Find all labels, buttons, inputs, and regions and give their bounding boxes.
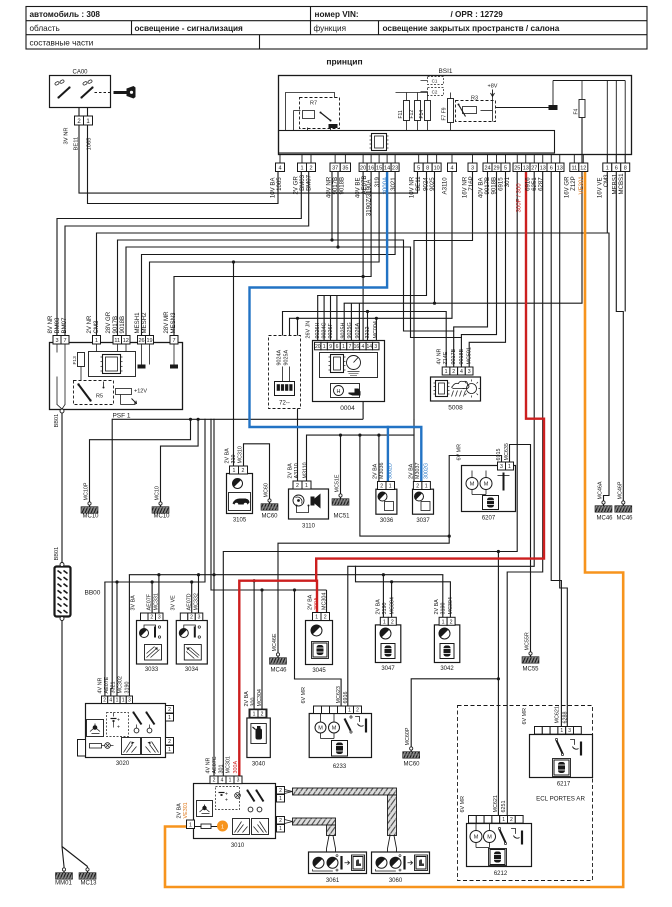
svg-text:+: + bbox=[117, 725, 120, 731]
svg-text:16: 16 bbox=[368, 166, 374, 172]
door module 6212 bbox=[467, 824, 532, 878]
svg-text:MC301: MC301 bbox=[226, 756, 232, 773]
svg-text:3060: 3060 bbox=[389, 878, 403, 884]
svg-text:6V MR: 6V MR bbox=[457, 444, 463, 461]
svg-text:35: 35 bbox=[342, 166, 348, 172]
svg-text:4: 4 bbox=[460, 369, 463, 375]
svg-text:MC55R: MC55R bbox=[525, 632, 531, 650]
svg-text:2: 2 bbox=[242, 468, 245, 474]
svg-text:5008: 5008 bbox=[448, 405, 463, 412]
svg-text:1: 1 bbox=[348, 708, 351, 714]
3037 connector pins bbox=[413, 482, 430, 490]
wire 3021 from PSF1 pin26 to BSI pin23 bbox=[142, 172, 396, 337]
wire 9024 rail from 0004 pins to BSI pin8b bbox=[318, 172, 427, 343]
courtesy lamp 3034 bbox=[176, 621, 207, 674]
svg-text:301: 301 bbox=[504, 177, 511, 188]
label BE11 bbox=[74, 137, 80, 151]
svg-text:F12: F12 bbox=[409, 110, 415, 119]
svg-text:4: 4 bbox=[278, 166, 281, 172]
lamp 3047 bbox=[375, 625, 400, 672]
svg-text:MESH2: MESH2 bbox=[141, 312, 148, 334]
wire 3000A blue from BSI pin14 to 3036 3037 bbox=[250, 172, 422, 486]
svg-text:9018B: 9018B bbox=[459, 349, 465, 365]
fuse F14 bbox=[396, 93, 431, 131]
3045 connector pins bbox=[313, 613, 330, 621]
svg-text:AE07D: AE07D bbox=[186, 593, 192, 610]
3047 connector pins bbox=[380, 617, 396, 625]
svg-text:2: 2 bbox=[452, 369, 455, 375]
svg-text:3033: 3033 bbox=[145, 667, 159, 673]
svg-text:6207: 6207 bbox=[482, 516, 496, 522]
svg-text:8: 8 bbox=[426, 166, 429, 172]
svg-text:6251: 6251 bbox=[501, 801, 507, 813]
svg-text:2: 2 bbox=[416, 484, 419, 490]
svg-text:MC004: MC004 bbox=[373, 321, 379, 338]
svg-text:MC51: MC51 bbox=[333, 514, 350, 520]
svg-text:4V NR: 4V NR bbox=[206, 758, 212, 774]
svg-text:MESH1: MESH1 bbox=[134, 312, 141, 334]
wire 6251 from BSI to 6212 pin2 bbox=[507, 172, 543, 816]
svg-text:MC621: MC621 bbox=[493, 795, 499, 812]
horn 3110 bbox=[289, 489, 329, 530]
wire MC46E ground feed bbox=[278, 535, 451, 655]
svg-text:2: 2 bbox=[450, 619, 453, 625]
3110 connector pins bbox=[293, 481, 311, 489]
svg-text:301: 301 bbox=[219, 765, 225, 774]
svg-text:MC501: MC501 bbox=[467, 347, 473, 364]
svg-text:область: область bbox=[30, 24, 60, 33]
svg-text:15: 15 bbox=[376, 166, 382, 172]
svg-text:BE11: BE11 bbox=[74, 137, 80, 151]
junction connector BB00 bbox=[55, 563, 101, 621]
wire BE11 from CA00 pin2 to BSI pin5 bbox=[79, 126, 418, 194]
svg-text:9026F: 9026F bbox=[328, 323, 334, 339]
switch 3036 bbox=[376, 489, 397, 524]
splice 1 orange circle bbox=[211, 821, 228, 832]
6233 connector pins bbox=[314, 706, 362, 714]
svg-text:12: 12 bbox=[580, 166, 586, 172]
3034 pin labels bbox=[170, 593, 199, 610]
svg-text:MC60: MC60 bbox=[403, 762, 420, 768]
cable to 3060 bbox=[285, 788, 397, 853]
svg-text:2: 2 bbox=[168, 739, 171, 745]
wire M3110 rail with MC51 and 3036 3037 drops bbox=[307, 419, 502, 536]
lamp 3042 bbox=[434, 625, 459, 672]
svg-text:2: 2 bbox=[380, 484, 383, 490]
svg-text:26V JN: 26V JN bbox=[306, 321, 312, 339]
svg-text:освещение закрытых пространств: освещение закрытых пространств / салона bbox=[383, 24, 560, 33]
svg-text:3047: 3047 bbox=[381, 666, 395, 672]
svg-text:1: 1 bbox=[300, 166, 303, 172]
label BB01 bbox=[54, 414, 60, 428]
svg-text:освещение - сигнализация: освещение - сигнализация bbox=[135, 24, 244, 33]
svg-text:MC46: MC46 bbox=[596, 516, 613, 522]
svg-text:MC635: MC635 bbox=[504, 443, 510, 460]
title принцип bbox=[326, 57, 362, 67]
svg-text:3002G: 3002G bbox=[423, 463, 429, 479]
interior lamp 3105 bbox=[227, 474, 253, 524]
svg-text:MC46A: MC46A bbox=[598, 481, 604, 499]
3037 pin labels bbox=[408, 463, 429, 479]
capacitor C2 bbox=[421, 88, 444, 96]
svg-text:3: 3 bbox=[500, 464, 503, 470]
svg-text:2: 2 bbox=[168, 707, 171, 713]
svg-text:9024A: 9024A bbox=[277, 350, 283, 366]
3040 pin labels bbox=[244, 689, 263, 706]
6217 connector pins bbox=[535, 727, 582, 735]
wire 319 from PSF1 pin19 to BSI pin16 with tap to 3105 pin1 bbox=[150, 172, 380, 467]
switch 3037 bbox=[413, 489, 434, 524]
wire BB01 from PSF1 to BB00 bbox=[61, 413, 63, 563]
svg-text:2V BA: 2V BA bbox=[408, 463, 414, 479]
svg-text:F7 F9: F7 F9 bbox=[442, 107, 448, 120]
svg-text:6V MR: 6V MR bbox=[460, 796, 466, 813]
lamp unit 3061 bbox=[309, 852, 367, 884]
PSF1 internal wiring bbox=[57, 343, 178, 414]
svg-text:функция: функция bbox=[314, 24, 347, 33]
courtesy lamp 3033 bbox=[137, 621, 168, 674]
document header table bbox=[26, 7, 647, 50]
fuse F11 bbox=[398, 93, 410, 131]
svg-text:1: 1 bbox=[425, 484, 428, 490]
svg-text:7: 7 bbox=[63, 338, 66, 344]
3010 left pin 1 bbox=[177, 802, 195, 828]
svg-text:300A: 300A bbox=[314, 597, 320, 610]
ground MC60P bbox=[403, 727, 420, 767]
wire 1065 from CA00 pin1 to BSI pin4 bbox=[88, 126, 279, 204]
lamp unit 3060 bbox=[372, 852, 430, 884]
ground MM01 bbox=[55, 868, 72, 887]
wire MC304 rail east to 3047 3042 bbox=[356, 566, 451, 617]
svg-text:10: 10 bbox=[434, 166, 440, 172]
ground MC13 bbox=[79, 868, 97, 887]
svg-text:VE301: VE301 bbox=[183, 802, 189, 818]
capacitor C1 bbox=[421, 77, 444, 85]
3034 connector pins bbox=[180, 613, 203, 621]
svg-text:6V MR: 6V MR bbox=[522, 708, 528, 725]
svg-text:MC304: MC304 bbox=[322, 593, 328, 610]
3033 connector pins bbox=[141, 613, 164, 621]
6217 pin labels bbox=[522, 706, 569, 724]
svg-text:9024G: 9024G bbox=[322, 322, 328, 338]
svg-text:MC60P: MC60P bbox=[405, 727, 411, 745]
svg-text:6: 6 bbox=[550, 166, 553, 172]
svg-text:3: 3 bbox=[198, 615, 201, 621]
ground MC46A bbox=[595, 481, 613, 521]
ground MC60 bbox=[261, 483, 278, 519]
svg-text:CA00: CA00 bbox=[72, 70, 88, 76]
CA00 connector pins 2 1 bbox=[75, 116, 93, 125]
3036 pin labels bbox=[373, 463, 394, 479]
svg-text:9025H: 9025H bbox=[341, 323, 347, 339]
svg-text:2: 2 bbox=[391, 619, 394, 625]
wire MC304 rail west to 3040 3045 and 6233 pin1 bbox=[211, 419, 341, 710]
svg-text:9026A: 9026A bbox=[355, 323, 361, 339]
component 72-- DIP module bbox=[269, 336, 301, 409]
svg-text:F11: F11 bbox=[398, 110, 404, 118]
key symbol bbox=[114, 86, 136, 99]
svg-text:6233: 6233 bbox=[333, 764, 347, 770]
svg-text:2V BA: 2V BA bbox=[434, 599, 440, 615]
svg-text:3034: 3034 bbox=[185, 667, 199, 673]
wire 9025 rail from 0004 pins to BSI pin10 and fuse F4 bbox=[344, 172, 582, 343]
6207 pin labels bbox=[457, 443, 511, 460]
svg-text:1: 1 bbox=[315, 615, 318, 621]
BSI microcontroller chip bbox=[370, 134, 389, 151]
svg-text:F4: F4 bbox=[574, 108, 580, 114]
svg-text:0004: 0004 bbox=[340, 405, 355, 412]
svg-text:M3037: M3037 bbox=[415, 463, 421, 479]
svg-text:BM03: BM03 bbox=[54, 317, 61, 334]
3040 connector pins bbox=[249, 709, 267, 718]
svg-text:1: 1 bbox=[95, 338, 98, 344]
wire 9018B branch from BSI pin29 to 5008 pin4 bbox=[461, 172, 496, 338]
svg-text:2: 2 bbox=[150, 615, 153, 621]
svg-text:3020: 3020 bbox=[116, 761, 130, 767]
svg-text:MC304: MC304 bbox=[448, 597, 454, 614]
ground MC55 bbox=[522, 632, 539, 672]
svg-text:MC46P: MC46P bbox=[617, 481, 623, 499]
svg-text:2V BA: 2V BA bbox=[375, 599, 381, 615]
control unit 0004 bbox=[313, 341, 385, 413]
svg-text:23: 23 bbox=[392, 166, 398, 172]
wire Z14E rail from 0004 pin14 to 5008 pin1 and 72-- module bbox=[283, 310, 447, 368]
wire 9017B from PSF1 pin11 to 5008 pin2 with branch to BSI pin37 bbox=[118, 172, 454, 368]
wire Z16P from BSI pin3 to 3037 pin2 bbox=[414, 172, 473, 420]
svg-text:автомобиль : 308: автомобиль : 308 bbox=[30, 9, 101, 19]
svg-text:M: M bbox=[332, 726, 337, 732]
svg-text:1: 1 bbox=[168, 747, 171, 753]
5008 connector pins bbox=[442, 367, 473, 375]
svg-text:2: 2 bbox=[510, 817, 513, 823]
svg-text:25: 25 bbox=[514, 166, 520, 172]
svg-text:1: 1 bbox=[122, 698, 125, 704]
svg-text:3190: 3190 bbox=[125, 682, 131, 694]
svg-text:2: 2 bbox=[309, 166, 312, 172]
3020 feed wires bbox=[111, 419, 119, 696]
3010 right pins upper bbox=[277, 787, 285, 803]
svg-text:MC304: MC304 bbox=[257, 689, 263, 706]
wire MC310 from 3105 pin2 to MC60 ground bbox=[244, 444, 270, 501]
BSI right internal wires bbox=[553, 81, 625, 164]
supply +8V arrow bbox=[488, 84, 498, 122]
svg-text:2: 2 bbox=[190, 615, 193, 621]
ground MC46E bbox=[270, 633, 288, 673]
svg-text:9017B: 9017B bbox=[451, 349, 457, 365]
svg-text:3105: 3105 bbox=[233, 518, 247, 524]
wire horizontal rail y419 bbox=[112, 418, 363, 421]
svg-text:1: 1 bbox=[606, 166, 609, 172]
svg-text:1: 1 bbox=[189, 823, 192, 829]
svg-text:VE301: VE301 bbox=[578, 176, 585, 195]
wire 300 tap to 3040 pin1 bbox=[253, 579, 256, 710]
3010 pin labels bbox=[206, 756, 240, 773]
svg-text:Z12P: Z12P bbox=[570, 176, 577, 191]
svg-text:MC10: MC10 bbox=[153, 514, 170, 520]
svg-text:PSF 1: PSF 1 bbox=[112, 413, 130, 420]
svg-text:Z14E: Z14E bbox=[443, 351, 449, 364]
BSI pin labels bbox=[270, 173, 626, 216]
wire MM01 MC13 ground split bbox=[62, 621, 88, 870]
svg-text:2V BA: 2V BA bbox=[373, 463, 379, 479]
svg-text:1: 1 bbox=[560, 728, 563, 734]
svg-text:ECL PORTES AR: ECL PORTES AR bbox=[536, 796, 585, 803]
wire 300F red from BSI to 3045 and 3010 bbox=[239, 172, 544, 777]
svg-text:2V BA: 2V BA bbox=[308, 594, 314, 610]
3020 pin labels bbox=[98, 676, 131, 693]
svg-text:1: 1 bbox=[502, 817, 505, 823]
svg-text:1065: 1065 bbox=[276, 177, 283, 191]
svg-text:MC51E: MC51E bbox=[335, 474, 341, 492]
relay R7 bbox=[300, 98, 340, 129]
ignition switch CA00 bbox=[50, 70, 113, 116]
svg-text:3: 3 bbox=[158, 615, 161, 621]
svg-text:11: 11 bbox=[114, 338, 120, 344]
svg-text:MC60: MC60 bbox=[261, 514, 278, 520]
svg-text:13: 13 bbox=[540, 166, 546, 172]
svg-text:16: 16 bbox=[354, 344, 360, 350]
svg-text:72--: 72-- bbox=[279, 401, 290, 407]
svg-text:9018B: 9018B bbox=[339, 177, 346, 195]
svg-text:1: 1 bbox=[233, 468, 236, 474]
svg-text:4: 4 bbox=[361, 344, 364, 350]
svg-text:4: 4 bbox=[450, 166, 453, 172]
svg-text:M: M bbox=[474, 835, 479, 841]
svg-text:9: 9 bbox=[329, 344, 332, 350]
rain light sensor 5008 bbox=[431, 377, 481, 412]
svg-text:составные части: составные части bbox=[30, 38, 94, 47]
3010 inline fuse bbox=[195, 824, 212, 829]
svg-text:MC331: MC331 bbox=[154, 593, 160, 610]
svg-text:9026H: 9026H bbox=[315, 323, 321, 339]
svg-text:BE11: BE11 bbox=[415, 176, 422, 191]
0004 connector pins bbox=[315, 342, 380, 350]
svg-text:20: 20 bbox=[315, 344, 321, 350]
svg-text:3110: 3110 bbox=[302, 524, 316, 530]
label 1065 bbox=[87, 138, 93, 151]
svg-text:9025A: 9025A bbox=[284, 350, 290, 366]
3033 pin labels bbox=[131, 593, 160, 610]
svg-text:1: 1 bbox=[279, 826, 282, 832]
wire 3190Z from PSF1 pin7b to BSI pin15 with drop to ground rail bbox=[174, 172, 371, 420]
6233 pin labels bbox=[301, 686, 349, 703]
svg-text:28V GR: 28V GR bbox=[105, 311, 112, 333]
svg-text:2V BA: 2V BA bbox=[177, 803, 183, 819]
svg-text:6: 6 bbox=[336, 344, 339, 350]
svg-text:9025: 9025 bbox=[429, 177, 436, 191]
svg-text:2V BA: 2V BA bbox=[225, 448, 231, 464]
svg-text:1: 1 bbox=[305, 483, 308, 489]
svg-text:MC13: MC13 bbox=[80, 881, 97, 887]
svg-text:300: 300 bbox=[251, 698, 257, 707]
svg-text:MC310: MC310 bbox=[238, 446, 244, 463]
svg-text:300A: 300A bbox=[233, 761, 239, 774]
svg-text:MC55: MC55 bbox=[522, 667, 539, 673]
svg-text:3036: 3036 bbox=[380, 518, 394, 524]
svg-text:3002D: 3002D bbox=[388, 463, 394, 479]
3042 pin labels bbox=[434, 597, 454, 614]
svg-text:M: M bbox=[318, 726, 323, 732]
motor module 6233 bbox=[309, 714, 371, 771]
svg-text:2: 2 bbox=[279, 788, 282, 794]
svg-text:2: 2 bbox=[261, 711, 264, 717]
svg-text:3: 3 bbox=[374, 344, 377, 350]
svg-text:CM3: CM3 bbox=[93, 320, 100, 333]
svg-text:1065: 1065 bbox=[87, 138, 93, 151]
cable to 3061 bbox=[285, 818, 336, 853]
svg-text:2: 2 bbox=[356, 708, 359, 714]
svg-text:1: 1 bbox=[383, 619, 386, 625]
svg-text:M: M bbox=[487, 835, 492, 841]
svg-text:3061: 3061 bbox=[326, 878, 340, 884]
3036 connector pins bbox=[378, 482, 395, 490]
svg-text:BM07: BM07 bbox=[61, 317, 68, 334]
svg-text:номер VIN:: номер VIN: bbox=[315, 10, 359, 19]
svg-text:37: 37 bbox=[332, 166, 338, 172]
svg-text:1: 1 bbox=[445, 369, 448, 375]
svg-text:/ OPR : 12729: / OPR : 12729 bbox=[451, 10, 504, 19]
3105 pin labels bbox=[225, 446, 244, 463]
wire 6288 from BSI to 6217 pin1 bbox=[551, 172, 561, 727]
wire from MC10 ground up to rail bbox=[161, 419, 199, 503]
5008 pin labels bbox=[437, 347, 473, 364]
svg-text:6: 6 bbox=[615, 166, 618, 172]
svg-text:MC623: MC623 bbox=[336, 686, 342, 703]
wire MEBS1 from BSI pin6 to MC46P ground bbox=[616, 172, 623, 503]
svg-text:1: 1 bbox=[442, 619, 445, 625]
svg-text:M: M bbox=[470, 482, 475, 488]
svg-text:CM3: CM3 bbox=[603, 174, 610, 187]
svg-text:R5: R5 bbox=[96, 394, 103, 400]
fuse F7 F9 bbox=[442, 93, 454, 131]
svg-text:1: 1 bbox=[508, 464, 511, 470]
svg-text:6212: 6212 bbox=[494, 871, 508, 877]
svg-text:2: 2 bbox=[296, 483, 299, 489]
component 3040 bbox=[247, 718, 270, 768]
svg-text:AE07E: AE07E bbox=[104, 676, 110, 693]
ground MC46P bbox=[615, 481, 633, 521]
svg-text:+: + bbox=[225, 798, 228, 804]
ground MC51 bbox=[332, 474, 350, 519]
svg-text:13: 13 bbox=[523, 166, 529, 172]
supply +12V arrow bbox=[116, 389, 148, 405]
ground MC10P bbox=[81, 482, 99, 519]
wire from MC10P ground up to rail bbox=[90, 419, 191, 503]
svg-text:2V NR: 2V NR bbox=[86, 315, 93, 334]
svg-text:1: 1 bbox=[229, 778, 232, 784]
6212 pin labels bbox=[460, 795, 507, 812]
svg-text:3010: 3010 bbox=[231, 843, 245, 849]
svg-text:MC621: MC621 bbox=[555, 706, 561, 723]
svg-text:3212: 3212 bbox=[365, 327, 371, 339]
3110 pin labels bbox=[288, 462, 309, 478]
svg-text:11: 11 bbox=[571, 166, 577, 172]
svg-text:3: 3 bbox=[568, 728, 571, 734]
relay R5 bbox=[74, 381, 114, 405]
3105 connector pins bbox=[230, 466, 248, 474]
BSI connector pin row bbox=[276, 155, 630, 172]
svg-text:AE07F: AE07F bbox=[147, 593, 153, 610]
wire MC621 from BSI to 6217 pin3 bbox=[560, 172, 568, 727]
svg-text:2: 2 bbox=[103, 698, 106, 704]
svg-text:3040: 3040 bbox=[252, 762, 266, 768]
3020 connector pins top bbox=[102, 696, 133, 704]
relay R3 bbox=[456, 96, 496, 122]
wire AE07 rail to 3020 3033 3034 bbox=[105, 419, 205, 696]
svg-text:19: 19 bbox=[146, 338, 152, 344]
svg-text:3: 3 bbox=[55, 338, 58, 344]
wire 9018B from PSF1 pin12 to 5008 pin4 with branch to BSI pin35 bbox=[126, 172, 461, 368]
